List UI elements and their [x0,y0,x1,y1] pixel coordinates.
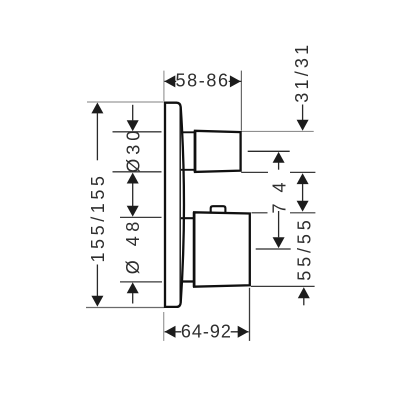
wire: diameter-48 bottom feature line (left) [120,281,162,283]
wire: 74 upper leader [278,163,280,170]
wire: 55/55 lower leader [303,298,305,305]
node: 74 bottom arrow [273,237,285,248]
wire: diameter-48 top feature line (left) [120,216,162,218]
node: 64-92 right arrow [238,326,249,338]
component: top handle body [195,131,241,172]
wire: lower handle left edge (thicker) [193,212,196,287]
wire: diameter-30 upper leader [132,105,134,121]
wire: lower handle upper edge extension segment A [252,212,268,214]
wire: 58-86 dimension line [164,80,241,82]
wire: top handle lower edge extension segment B [290,171,315,173]
svg-text:31/31: 31/31 [292,45,312,103]
wire: top handle axis line (right) [248,150,290,152]
wire: 74 lower leader [278,211,280,237]
wire: 155/155 bottom extension line [86,307,164,309]
wire: 64-92 left extension line [163,312,165,341]
wire: plate inner face line [179,105,181,305]
wire: 64-92 dimension line [165,331,249,333]
svg-text:64-92: 64-92 [181,321,231,341]
node: diameter-30 top arrow [127,120,139,131]
wire: diameter-48 lower leader [132,293,134,304]
wire: 155/155 lower leader [96,265,98,297]
node: 55/55 bottom arrow [298,287,310,298]
wire: diameter-30 bottom feature line (left) [113,171,162,173]
component: lower handle tab [211,206,226,213]
node: 58-86 left arrow [164,75,175,87]
wire: diameter-30 top feature line (left) [113,131,162,133]
node: 55/55 top arrow (internal pair bottom) [297,201,309,212]
node: diameter-48 top arrow [127,206,139,217]
svg-text:Ø30: Ø30 [123,131,143,173]
wire: lower handle upper edge extension segment B [290,212,315,214]
wire: top handle left edge (thicker) [194,131,197,173]
component: lower handle body [194,212,250,286]
wire: 64-92 right extension line [249,288,251,341]
wire: 58-86 right extension line [240,71,242,131]
wire: top handle lower edge extension segment A [241,171,268,173]
node: 155/155 top arrow [91,103,103,114]
node: diameter-30 bottom arrow [127,173,139,184]
wire: shared leader between 31/31 and 55/55 arrows [302,184,304,201]
wire: top handle upper edge extension (right, gray) [241,130,313,132]
node: 58-86 right arrow [230,75,241,87]
node: 64-92 left arrow [165,326,176,338]
component: lower handle stem [181,217,194,219]
component: wall plate (escutcheon side view) [165,103,184,307]
node: 31/31 top arrow [297,120,309,131]
wire: shared leader between diameter dims [132,183,134,206]
wire: 58-86 left extension line [163,71,165,102]
node: 64-92 label [181,323,231,339]
wire: lower handle bottom edge extension (right) [251,285,315,287]
wire: 155/155 top extension line [87,101,164,103]
wire: 155/155 upper leader [96,113,98,161]
node: diameter-48 bottom arrow [127,282,139,293]
svg-text:58-86: 58-86 [176,71,229,91]
wire: 31/31 leader [302,105,304,121]
wire: lower handle axis line (right) [256,248,291,250]
node: 155/155 bottom arrow [91,296,103,307]
node: 31/31 bottom arrow (internal pair top) [297,173,309,184]
svg-text:55/55: 55/55 [295,220,315,281]
node: 58-86 label [176,72,229,88]
component: top handle stem [181,131,195,133]
node: 74 top arrow [273,152,285,163]
